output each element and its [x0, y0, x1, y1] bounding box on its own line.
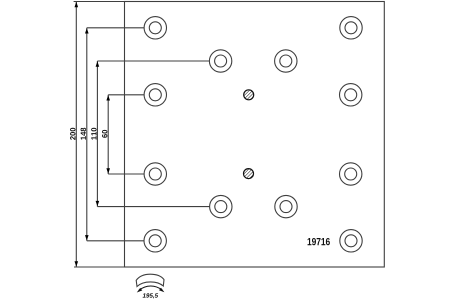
rivet hole H2 row1 right	[340, 17, 362, 39]
rivet hole H5 row2 left	[144, 84, 166, 106]
extension top edge	[74, 1, 125, 3]
lining plate outline	[125, 2, 385, 268]
arrow up dim200	[75, 2, 79, 7]
leader row4	[87, 240, 144, 242]
rivet hole H3 rowA col2	[209, 50, 231, 72]
width dimension arc	[139, 286, 163, 290]
rivet hole H1 row1 left	[144, 17, 166, 39]
pilot hole hatched P2	[244, 169, 254, 179]
part number 19716	[308, 238, 330, 245]
dim label 200	[70, 128, 75, 140]
rivet hole H9 rowB col2	[210, 195, 232, 217]
dimension line 148	[86, 28, 88, 241]
arrow up dim110	[96, 61, 100, 66]
rivet hole H11 row4 left	[144, 230, 166, 252]
arrow down dim200	[75, 261, 79, 266]
width label 195,5	[143, 293, 158, 298]
rivet hole H12 row4 right	[340, 230, 362, 252]
dim label 110	[91, 128, 96, 140]
lining cross-section profile	[136, 274, 164, 286]
arrow up dim60	[106, 95, 110, 100]
leader row3	[108, 173, 144, 175]
arrow left of width arc	[137, 288, 143, 293]
leader rowB	[97, 206, 209, 208]
dimension line 60	[107, 95, 109, 174]
rivet hole H4 rowA col3	[275, 50, 297, 72]
rivet hole H7 row3 left	[144, 163, 166, 185]
dimension line 110	[96, 61, 98, 207]
rivet hole H8 row3 right	[340, 163, 362, 185]
leader row1	[87, 27, 144, 29]
extension bottom edge	[74, 266, 125, 268]
dim label 148	[81, 128, 86, 140]
arrow down dim148	[85, 235, 89, 240]
dimension line 200	[75, 2, 77, 268]
arrow up dim148	[85, 28, 89, 33]
leader rowA	[97, 60, 209, 62]
rivet hole H6 row2 right	[340, 84, 362, 106]
dim label 60	[102, 130, 107, 138]
arrow right of width arc	[159, 288, 164, 293]
rivet hole H10 rowB col3	[275, 195, 297, 217]
pilot hole hatched P1	[244, 90, 254, 100]
leader row2	[108, 94, 144, 96]
arrow down dim110	[96, 201, 100, 206]
arrow down dim60	[106, 168, 110, 173]
